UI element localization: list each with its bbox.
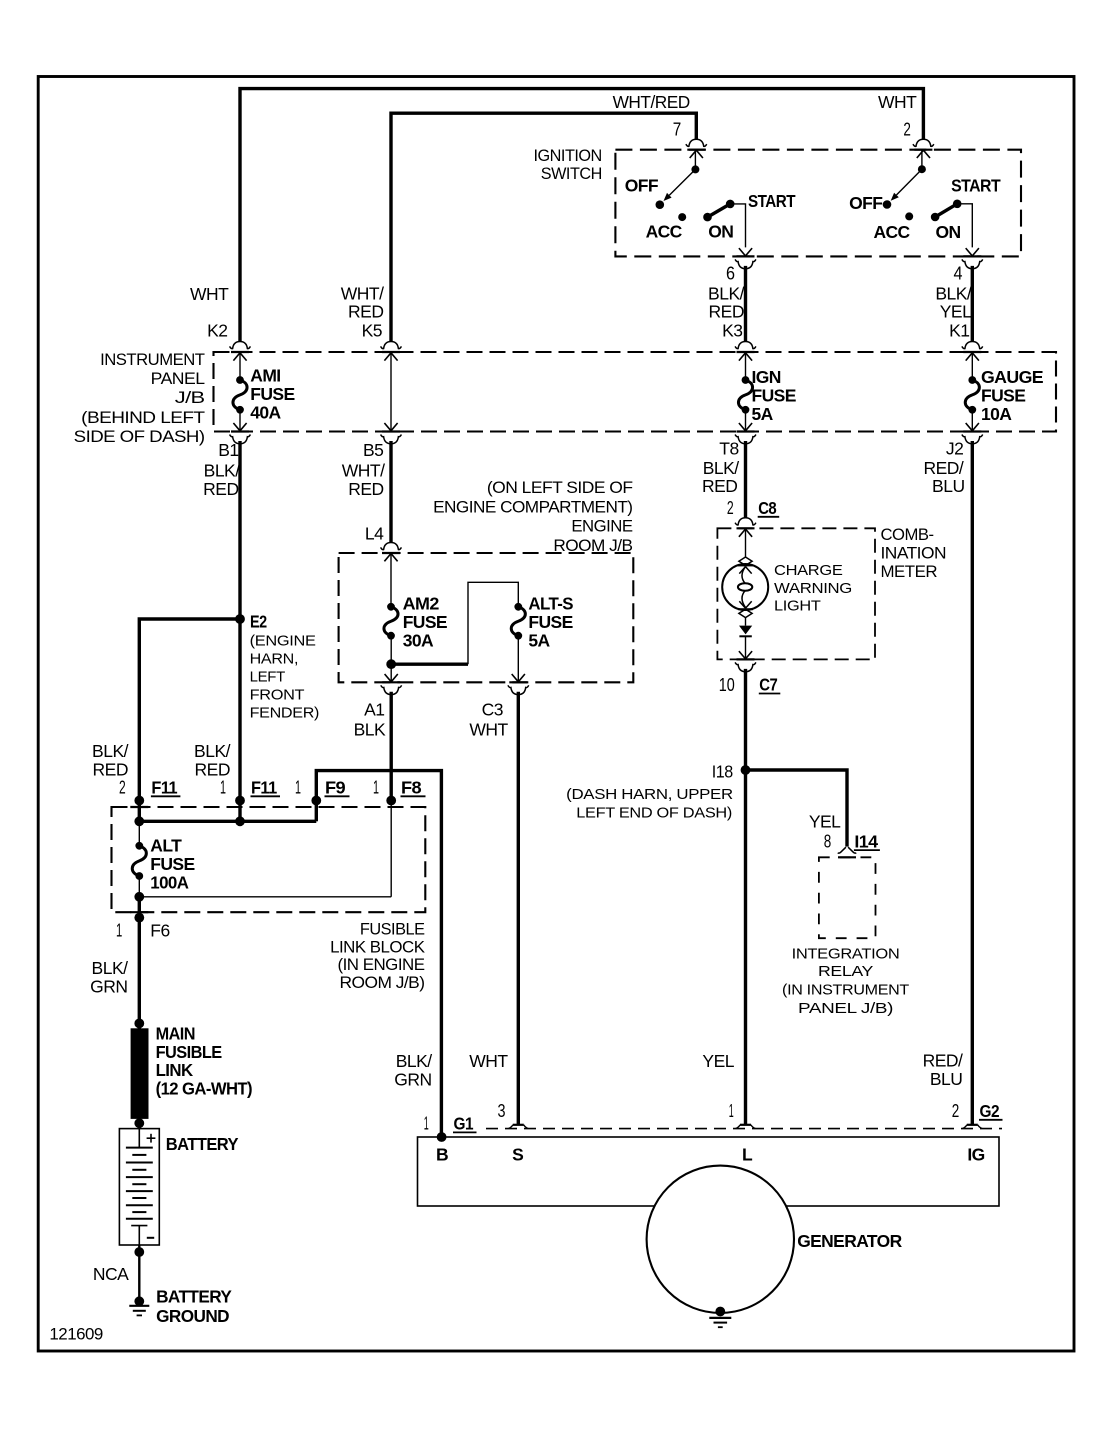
svg-text:GAUGE: GAUGE (981, 367, 1043, 387)
svg-text:ENGINE COMPARTMENT): ENGINE COMPARTMENT) (433, 498, 632, 516)
svg-text:ALT-S: ALT-S (528, 594, 573, 614)
svg-text:L: L (742, 1145, 753, 1165)
svg-text:5A: 5A (528, 631, 550, 651)
svg-text:BLK/: BLK/ (708, 284, 745, 304)
svg-text:FUSE: FUSE (528, 612, 572, 632)
svg-text:WHT: WHT (469, 1051, 508, 1071)
svg-text:A1: A1 (364, 700, 384, 720)
svg-text:F6: F6 (150, 921, 169, 941)
svg-text:B5: B5 (363, 440, 383, 460)
svg-text:MAIN: MAIN (156, 1024, 195, 1044)
svg-text:K2: K2 (207, 321, 227, 341)
svg-text:GRN: GRN (394, 1070, 431, 1090)
svg-text:4: 4 (954, 263, 963, 284)
svg-text:2: 2 (952, 1100, 960, 1121)
svg-text:BLK/: BLK/ (703, 458, 740, 478)
svg-text:F9: F9 (325, 778, 346, 798)
svg-text:1: 1 (116, 920, 122, 941)
svg-text:RELAY: RELAY (818, 963, 873, 980)
svg-text:YEL: YEL (940, 302, 972, 322)
svg-text:ON: ON (708, 222, 733, 242)
svg-text:FUSIBLE: FUSIBLE (360, 920, 425, 938)
svg-text:HARN,: HARN, (250, 651, 299, 668)
svg-text:2: 2 (727, 497, 734, 518)
svg-text:NCA: NCA (93, 1264, 129, 1284)
svg-text:F8: F8 (401, 778, 422, 798)
svg-text:GRN: GRN (90, 977, 127, 997)
svg-text:RED: RED (702, 476, 737, 496)
svg-text:T8: T8 (719, 439, 738, 459)
svg-text:AMI: AMI (250, 365, 280, 385)
svg-text:GENERATOR: GENERATOR (797, 1231, 902, 1251)
svg-text:5A: 5A (752, 404, 774, 424)
svg-text:ROOM J/B: ROOM J/B (553, 537, 633, 555)
svg-text:7: 7 (673, 118, 682, 139)
svg-text:IG: IG (967, 1145, 984, 1165)
svg-text:IGN: IGN (752, 367, 781, 387)
svg-text:FUSE: FUSE (250, 384, 294, 404)
svg-text:LINK: LINK (156, 1060, 194, 1080)
svg-text:OFF: OFF (849, 193, 883, 213)
svg-text:40A: 40A (250, 402, 281, 422)
svg-text:YEL: YEL (809, 812, 841, 832)
svg-text:BLK/: BLK/ (204, 461, 241, 481)
svg-text:CHARGE: CHARGE (774, 562, 843, 579)
svg-text:1: 1 (373, 777, 379, 798)
svg-text:ON: ON (936, 222, 961, 242)
svg-text:I14: I14 (854, 831, 878, 851)
svg-text:START: START (951, 175, 1001, 195)
svg-text:(ON LEFT SIDE OF: (ON LEFT SIDE OF (487, 479, 633, 497)
svg-text:BLK/: BLK/ (194, 741, 231, 761)
svg-text:E2: E2 (250, 611, 267, 631)
svg-text:ACC: ACC (873, 222, 910, 242)
svg-text:RED/: RED/ (923, 1051, 963, 1071)
svg-text:C7: C7 (759, 675, 777, 695)
svg-text:K5: K5 (362, 321, 382, 341)
svg-text:BATTERY: BATTERY (166, 1134, 239, 1154)
svg-text:K1: K1 (949, 321, 969, 341)
svg-text:1: 1 (424, 1113, 429, 1134)
svg-text:(ENGINE: (ENGINE (250, 633, 316, 650)
svg-text:LEFT: LEFT (250, 669, 286, 686)
svg-text:(IN ENGINE: (IN ENGINE (338, 956, 426, 974)
svg-text:10: 10 (719, 674, 735, 695)
svg-text:FENDER): FENDER) (250, 705, 320, 722)
svg-text:BATTERY: BATTERY (156, 1287, 232, 1307)
svg-text:BLK/: BLK/ (92, 958, 129, 978)
svg-text:BLK: BLK (354, 720, 386, 740)
svg-text:121609: 121609 (49, 1325, 103, 1343)
svg-text:FUSE: FUSE (150, 854, 194, 874)
svg-text:COMB-: COMB- (881, 526, 934, 544)
svg-text:PANEL J/B): PANEL J/B) (798, 1000, 893, 1017)
svg-text:J2: J2 (946, 439, 963, 459)
svg-text:G2: G2 (980, 1101, 1000, 1121)
svg-text:RED/: RED/ (923, 458, 963, 478)
svg-text:WHT: WHT (190, 284, 229, 304)
svg-text:J/B: J/B (175, 389, 205, 407)
svg-text:K3: K3 (722, 321, 742, 341)
svg-text:10A: 10A (981, 404, 1012, 424)
svg-text:INSTRUMENT: INSTRUMENT (100, 351, 205, 369)
svg-text:B1: B1 (218, 440, 238, 460)
svg-text:I18: I18 (712, 762, 733, 782)
svg-text:(12 GA-WHT): (12 GA-WHT) (156, 1078, 252, 1098)
svg-text:ROOM J/B): ROOM J/B) (340, 974, 425, 992)
svg-text:IGNITION: IGNITION (534, 147, 602, 165)
svg-text:(IN INSTRUMENT: (IN INSTRUMENT (782, 981, 909, 998)
svg-text:PANEL: PANEL (151, 370, 205, 388)
svg-text:BLU: BLU (930, 1069, 963, 1089)
svg-text:BLK/: BLK/ (396, 1051, 433, 1071)
svg-text:METER: METER (881, 563, 938, 581)
svg-text:100A: 100A (150, 873, 189, 893)
svg-text:ACC: ACC (646, 222, 683, 242)
svg-text:1: 1 (220, 777, 226, 798)
svg-text:OFF: OFF (625, 176, 659, 196)
svg-text:ALT: ALT (150, 836, 182, 856)
svg-text:LINK BLOCK: LINK BLOCK (330, 938, 425, 956)
svg-text:LIGHT: LIGHT (774, 598, 821, 615)
svg-text:G1: G1 (454, 1114, 474, 1134)
svg-text:INATION: INATION (881, 545, 947, 563)
svg-text:3: 3 (498, 1100, 506, 1121)
svg-text:6: 6 (726, 263, 735, 284)
svg-text:SIDE OF DASH): SIDE OF DASH) (74, 428, 205, 446)
svg-text:GROUND: GROUND (156, 1306, 229, 1326)
svg-text:FUSE: FUSE (981, 386, 1025, 406)
svg-text:RED: RED (348, 302, 383, 322)
svg-text:WHT: WHT (469, 720, 508, 740)
svg-text:START: START (748, 191, 796, 211)
svg-text:RED: RED (203, 479, 238, 499)
svg-text:WARNING: WARNING (774, 580, 852, 597)
svg-text:F11: F11 (151, 778, 177, 798)
svg-text:L4: L4 (365, 524, 384, 544)
svg-text:30A: 30A (403, 631, 434, 651)
svg-text:YEL: YEL (702, 1051, 734, 1071)
svg-text:C3: C3 (482, 700, 503, 720)
svg-text:SWITCH: SWITCH (541, 165, 602, 183)
svg-text:WHT/RED: WHT/RED (613, 92, 690, 112)
svg-text:(DASH HARN, UPPER: (DASH HARN, UPPER (566, 786, 733, 803)
svg-text:ENGINE: ENGINE (571, 518, 633, 536)
svg-text:FUSE: FUSE (403, 612, 447, 632)
svg-text:WHT/: WHT/ (342, 461, 385, 481)
svg-text:RED: RED (709, 302, 744, 322)
svg-text:BLU: BLU (932, 476, 965, 496)
svg-text:FUSIBLE: FUSIBLE (156, 1042, 222, 1062)
svg-text:LEFT END OF DASH): LEFT END OF DASH) (576, 805, 732, 822)
svg-text:1: 1 (295, 777, 301, 798)
svg-text:FRONT: FRONT (250, 687, 305, 704)
svg-text:S: S (512, 1145, 523, 1165)
svg-text:(BEHIND LEFT: (BEHIND LEFT (81, 409, 205, 427)
svg-text:B: B (436, 1145, 448, 1165)
svg-text:BLK/: BLK/ (92, 741, 129, 761)
svg-text:AM2: AM2 (403, 594, 440, 614)
svg-text:8: 8 (824, 830, 832, 851)
svg-text:1: 1 (729, 1100, 734, 1121)
svg-text:INTEGRATION: INTEGRATION (792, 945, 900, 962)
svg-text:2: 2 (119, 777, 126, 798)
svg-text:C8: C8 (758, 498, 777, 518)
svg-text:WHT/: WHT/ (341, 284, 384, 304)
svg-text:RED: RED (348, 479, 383, 499)
svg-text:WHT: WHT (878, 92, 917, 112)
svg-text:BLK/: BLK/ (935, 284, 972, 304)
svg-text:FUSE: FUSE (752, 386, 796, 406)
svg-text:2: 2 (903, 118, 911, 139)
svg-text:F11: F11 (251, 778, 277, 798)
